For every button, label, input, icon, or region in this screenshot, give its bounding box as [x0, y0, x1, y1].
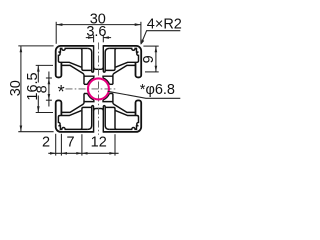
arrowhead 3.6 right — [103, 36, 109, 39]
svg-text:8: 8 — [34, 85, 50, 93]
arrowhead 30 top right — [135, 23, 141, 26]
arrowhead 30 left bottom — [20, 126, 23, 132]
profile quadrant top-left — [56, 45, 99, 84]
arrowhead 12 left — [82, 152, 88, 155]
extension line bottom at cavity right — [114, 134, 116, 155]
arrowhead 12 right — [109, 152, 115, 155]
arrowhead leader 4xR2 — [141, 39, 145, 45]
arrowhead 7 left — [61, 152, 67, 155]
svg-text:7: 7 — [67, 134, 75, 150]
extension tick 8 top — [46, 77, 52, 79]
extension line bottom at cavity left — [81, 134, 83, 155]
svg-text:4×R2: 4×R2 — [147, 16, 182, 32]
extension line bottom at left face — [55, 134, 57, 156]
extension line 9 bottom — [145, 71, 159, 73]
extension tick 3.6 left — [93, 35, 95, 43]
dimension line 9 — [155, 46, 157, 72]
leader 4xR2 — [141, 31, 180, 44]
dimension line 3.6 left — [86, 37, 94, 39]
arrowhead 16.5 top — [37, 65, 40, 71]
center hole chamber arcs — [87, 78, 109, 100]
magenta highlight circle on center hole — [88, 78, 109, 99]
extension tick 8 bottom — [46, 99, 52, 101]
arrowhead 7 right — [76, 152, 82, 155]
extension line 30 top left — [55, 22, 57, 44]
svg-text:*φ6.8: *φ6.8 — [140, 82, 175, 98]
extension line 30 left bottom — [18, 131, 53, 133]
profile quadrant top-right — [98, 45, 141, 84]
extension line 30 left top — [18, 45, 53, 47]
arrowhead 8 top — [48, 78, 51, 84]
extension line 9 top — [143, 45, 158, 47]
dimension line 8 — [48, 72, 50, 107]
svg-text:9: 9 — [141, 55, 157, 63]
dimension line 3.6 right — [104, 37, 112, 39]
arrowhead 9 bottom — [155, 66, 158, 72]
svg-text:3.6: 3.6 — [86, 24, 106, 40]
profile quadrant bottom-right — [98, 94, 141, 133]
dimension line 30 left — [20, 46, 22, 132]
dimension line 16.5 — [37, 65, 39, 112]
svg-text:30: 30 — [8, 80, 24, 96]
leader phi6.8 — [108, 91, 181, 98]
arrowhead 30 top left — [56, 23, 62, 26]
svg-text:2: 2 — [42, 135, 50, 151]
profile quadrant bottom-left — [56, 94, 99, 133]
dimension line 30 top — [56, 24, 141, 26]
center lines dash-dot — [66, 43, 118, 135]
extension line bottom at lip inner — [60, 134, 62, 156]
dimension line bottom 2-7-12 — [48, 152, 118, 154]
arrowhead 8 bottom — [48, 94, 51, 100]
extension line 30 top right — [140, 22, 142, 44]
extension line 16.5 top — [36, 64, 53, 66]
extension tick 3.6 right — [102, 35, 104, 43]
arrowhead 16.5 bottom — [37, 106, 40, 112]
arrowhead 2 outside — [50, 152, 56, 155]
arrowhead 3.6 left — [88, 36, 94, 39]
svg-text:*: * — [58, 82, 65, 102]
extension line 16.5 bottom — [36, 112, 53, 114]
arrowhead 9 top — [155, 46, 158, 52]
arrowhead 30 left top — [20, 46, 23, 52]
svg-text:12: 12 — [91, 134, 107, 150]
